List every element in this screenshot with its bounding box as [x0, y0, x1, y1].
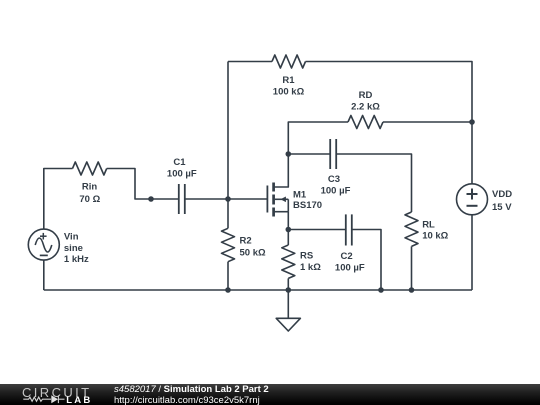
node C2 bottom dot: [378, 287, 384, 293]
transistor M1 gate bar: [266, 186, 268, 213]
svg-text:LAB: LAB: [66, 395, 92, 405]
node RL bottom dot: [409, 287, 415, 293]
footer bar: [0, 384, 540, 405]
svg-text:100 kΩ: 100 kΩ: [273, 87, 305, 98]
voltage source Vin circle: [28, 229, 59, 260]
svg-text:100 µF: 100 µF: [167, 169, 197, 180]
wire RD right lead to VDD rail: [383, 121, 472, 123]
wire VDD bottom to rail: [471, 215, 473, 290]
svg-text:100 µF: 100 µF: [321, 186, 351, 197]
VDD plus sign: [467, 193, 478, 195]
wire R1 left lead down to gate node: [227, 62, 229, 200]
node C1 input dot: [148, 196, 154, 202]
ground: [287, 290, 289, 318]
node drain dot: [286, 151, 292, 157]
wire body to source: [287, 199, 289, 211]
capacitor C2: [345, 214, 347, 245]
node source dot: [286, 227, 292, 233]
wire source node to C2: [288, 229, 346, 231]
resistor RS: [287, 230, 289, 246]
svg-text:VDD: VDD: [492, 189, 512, 200]
svg-text:Vin: Vin: [64, 232, 79, 243]
Vin plus sign: [40, 235, 47, 237]
wire source down to source node: [287, 212, 289, 230]
Vin minus sign: [40, 254, 48, 256]
svg-text:BS170: BS170: [293, 200, 322, 211]
wire top rail R1 left lead: [228, 61, 272, 63]
svg-text:RL: RL: [422, 220, 435, 231]
capacitor C3: [329, 139, 331, 169]
wire Vin bottom: [43, 260, 45, 290]
transistor M1 channel segments: [272, 183, 275, 192]
capacitor C1: [178, 184, 180, 214]
resistor R2: [227, 199, 229, 228]
svg-text:sine: sine: [64, 243, 83, 254]
svg-text:Rin: Rin: [82, 182, 98, 193]
svg-text:C3: C3: [328, 174, 340, 185]
wire bottom rail: [44, 289, 472, 291]
resistor RL: [405, 212, 418, 246]
wire Rin to C1: [107, 169, 179, 200]
svg-text:1 kΩ: 1 kΩ: [300, 262, 321, 273]
wire RD left lead: [288, 122, 348, 154]
resistor Rin: [73, 162, 107, 175]
svg-text:2.2 kΩ: 2.2 kΩ: [351, 102, 380, 113]
svg-text:15 V: 15 V: [492, 202, 512, 213]
logo CIRCUIT text: [22, 385, 92, 400]
svg-text:C1: C1: [173, 157, 186, 168]
svg-text:M1: M1: [293, 190, 307, 201]
svg-text:C2: C2: [341, 251, 353, 262]
node R2 bottom dot: [225, 287, 231, 293]
svg-text:100 µF: 100 µF: [335, 262, 365, 273]
transistor M1 source stub: [275, 211, 289, 213]
footer title text: [114, 385, 269, 395]
footer url text: [114, 396, 260, 405]
wire drain node to C3: [288, 153, 330, 155]
transistor M1 drain stub and wire to drain node: [275, 154, 289, 187]
wire C3 to RL branch: [336, 154, 411, 212]
svg-text:50 kΩ: 50 kΩ: [240, 248, 266, 259]
node gate junction dot: [225, 196, 231, 202]
svg-text:R2: R2: [240, 236, 252, 247]
svg-text:10 kΩ: 10 kΩ: [422, 231, 448, 242]
Vin sine wave: [35, 238, 52, 252]
resistor RD: [348, 116, 383, 129]
svg-text:RD: RD: [359, 90, 373, 101]
svg-text:1 kHz: 1 kHz: [64, 254, 89, 265]
wire R1 right lead to VDD rail: [306, 62, 473, 184]
svg-text:RS: RS: [300, 251, 313, 262]
node ground dot: [286, 287, 292, 293]
svg-text:70 Ω: 70 Ω: [79, 194, 100, 205]
wire C1 to gate node: [185, 198, 228, 200]
transistor M1 body arrow: [280, 197, 286, 203]
logo squiggle and LAB: [0, 384, 100, 405]
transistor M1 body line: [275, 198, 288, 200]
wire C2 right lead down to bottom rail: [352, 230, 381, 291]
VDD minus sign: [467, 205, 478, 207]
wire RL bottom lead: [411, 246, 413, 290]
node VDD/RD dot: [469, 119, 475, 125]
wire Vin top to Rin: [44, 169, 73, 230]
svg-text:R1: R1: [282, 75, 295, 86]
voltage source VDD circle: [457, 184, 488, 215]
wire gate node to M1 gate: [228, 198, 267, 200]
resistor R1: [272, 55, 306, 68]
